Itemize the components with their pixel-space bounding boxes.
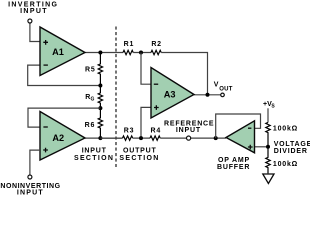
node R1/R2 junction — [139, 51, 143, 55]
wire inverting input to A1 + — [30, 23, 40, 41]
svg-text:100kΩ: 100kΩ — [273, 126, 298, 133]
svg-text:R4: R4 — [151, 127, 162, 134]
node A1 output junction — [98, 51, 102, 55]
svg-text:OUT: OUT — [219, 87, 233, 93]
svg-text:R6: R6 — [85, 122, 96, 129]
svg-text:A2: A2 — [52, 133, 64, 143]
wire A3 output — [194, 94, 221, 96]
wire R4 to reference node and buffer output — [160, 137, 226, 139]
svg-text:A1: A1 — [52, 47, 64, 57]
node A3 output junction — [206, 93, 210, 97]
node RG/R6 junction — [98, 106, 102, 110]
resistor R5 — [85, 53, 103, 86]
svg-text:OUTPUT: OUTPUT — [123, 148, 157, 155]
resistor R3 — [123, 127, 135, 140]
node A2 output junction — [98, 136, 102, 140]
wire buffer feedback loop — [216, 114, 261, 138]
wire R1/R2 node down to A3 - input — [141, 53, 151, 85]
node R3/R4 junction — [139, 136, 143, 140]
node divider junction — [266, 145, 270, 149]
svg-text:INPUT: INPUT — [82, 148, 107, 155]
svg-text:100kΩ: 100kΩ — [273, 161, 298, 168]
svg-text:S: S — [271, 104, 275, 110]
svg-text:BUFFER: BUFFER — [217, 164, 250, 171]
resistor R2 — [151, 41, 162, 55]
svg-text:G: G — [91, 97, 95, 103]
wire A3 + input from R3/R4 node — [141, 107, 151, 138]
op-amp A1 — [40, 27, 85, 76]
label REFERENCE INPUT — [164, 120, 214, 134]
resistor 100k top — [266, 122, 298, 146]
wire bottom rail A2 node to R3 — [100, 137, 122, 139]
op-amp A2 — [40, 112, 85, 161]
svg-text:R3: R3 — [124, 127, 135, 134]
svg-text:R2: R2 — [151, 41, 162, 48]
ground — [263, 174, 274, 184]
label NONINVERTING INPUT — [0, 183, 60, 197]
node R5/RG junction — [98, 84, 102, 88]
wire VS rail — [267, 108, 269, 122]
svg-text:R5: R5 — [85, 67, 96, 74]
wire noninverting input to A2 + — [30, 150, 40, 175]
op-amp buffer — [226, 121, 255, 153]
node reference/buffer junction — [214, 136, 218, 140]
wire A2 output — [85, 137, 123, 139]
op-amp A3 — [151, 68, 194, 119]
terminal inverting input — [28, 19, 32, 23]
wire R3 to R4 — [133, 137, 150, 139]
label OUTPUT SECTION — [119, 148, 159, 162]
svg-text:SECTION: SECTION — [119, 155, 159, 162]
terminal noninverting input — [28, 175, 32, 179]
wire A1 - feedback loop — [28, 65, 101, 85]
wire A1 output — [85, 52, 123, 54]
terminal reference input — [187, 136, 191, 140]
section divider dashed line — [115, 27, 117, 168]
resistor R4 — [150, 127, 161, 140]
terminal VOUT — [221, 93, 225, 97]
label OP AMP BUFFER — [217, 157, 250, 171]
label INPUT SECTION — [74, 148, 114, 162]
resistor R6 — [85, 108, 103, 139]
svg-text:INPUT: INPUT — [17, 190, 44, 197]
svg-text:A3: A3 — [164, 90, 176, 100]
label VOLTAGE DIVIDER — [274, 141, 312, 155]
resistor 100k bottom — [266, 147, 298, 174]
svg-text:R1: R1 — [124, 41, 135, 48]
wire R1 to R2 — [133, 52, 151, 54]
label INVERTING INPUT — [8, 2, 58, 15]
wire R2 to output node (feedback) — [161, 53, 207, 95]
resistor RG — [85, 86, 102, 109]
wire buffer + input to divider node — [255, 146, 269, 148]
svg-text:V: V — [214, 82, 219, 89]
svg-text:INPUT: INPUT — [20, 8, 48, 15]
label VOUT — [214, 82, 233, 93]
svg-text:INPUT: INPUT — [176, 127, 201, 134]
label +VS supply — [263, 101, 275, 110]
svg-text:DIVIDER: DIVIDER — [274, 148, 308, 155]
svg-text:SECTION: SECTION — [74, 155, 114, 162]
resistor R1 — [123, 41, 134, 55]
wire A2 - feedback loop — [28, 108, 100, 127]
